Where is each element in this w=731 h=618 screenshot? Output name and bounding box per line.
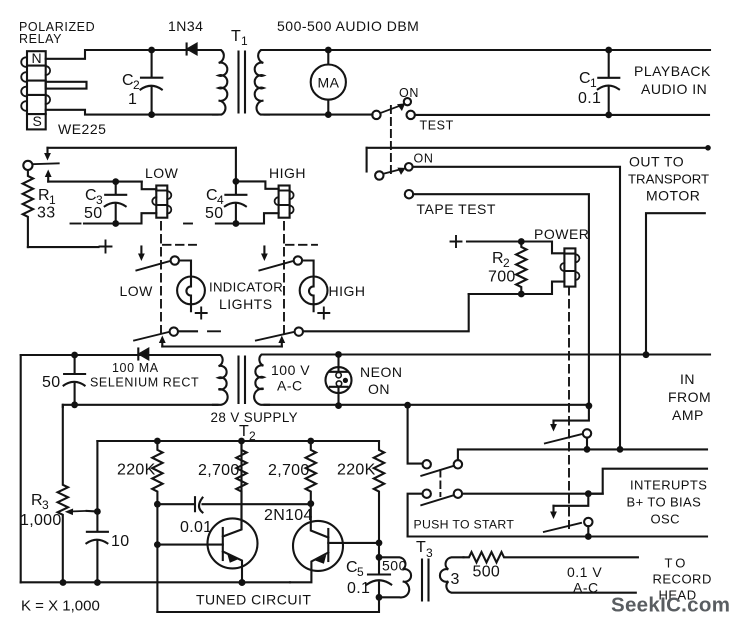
actuate arrow HIGH indicator switch <box>261 247 268 262</box>
svg-text:0.1: 0.1 <box>347 580 370 597</box>
switch S8 push-to-start b <box>408 490 603 537</box>
dashed jog HIGH <box>286 244 317 246</box>
wire release switch to R2 bottom node <box>303 294 469 331</box>
svg-text:28 V SUPPLY: 28 V SUPPLY <box>211 410 299 425</box>
dashed link start switches <box>439 470 441 496</box>
svg-text:A-C: A-C <box>573 580 599 596</box>
svg-text:T: T <box>239 423 249 440</box>
svg-text:FROM: FROM <box>668 389 711 405</box>
svg-text:K = X 1,000: K = X 1,000 <box>21 598 100 615</box>
left frame vertical <box>20 355 22 583</box>
svg-text:10: 10 <box>111 533 129 550</box>
diode selenium rectifier <box>138 349 148 360</box>
relay coil POWER <box>560 248 579 286</box>
transformer T2 primary winding <box>213 355 228 405</box>
svg-text:RECORD: RECORD <box>653 572 712 587</box>
transformer T1 label <box>231 28 248 48</box>
svg-text:LIGHTS: LIGHTS <box>219 296 273 312</box>
wire 28V to start switch <box>408 405 423 463</box>
resistor R2 700 <box>516 242 526 295</box>
svg-text:ON: ON <box>399 86 419 100</box>
svg-text:5: 5 <box>357 565 364 579</box>
wire C4 bottom to HIGH coil <box>216 213 279 223</box>
svg-text:HIGH: HIGH <box>269 165 306 181</box>
label POLARIZED RELAY <box>19 20 95 46</box>
svg-text:WE225: WE225 <box>58 121 106 137</box>
svg-text:1: 1 <box>590 76 597 90</box>
label R1 33 <box>37 187 56 222</box>
plus sign (R1 return) <box>100 241 112 253</box>
label C5 0.1 <box>346 559 370 597</box>
svg-text:2N104: 2N104 <box>264 507 313 524</box>
wire relay top contact to top rail <box>46 50 218 59</box>
dashed link LOW relay to switches <box>160 222 162 334</box>
label C1 value 0.1 <box>578 70 601 107</box>
svg-text:OSC: OSC <box>651 512 680 527</box>
label R3 1,000 <box>20 492 62 529</box>
actuate arrow LOW indicator switch <box>138 247 145 262</box>
resistor R1 33 <box>23 170 33 247</box>
svg-text:T: T <box>231 28 241 45</box>
transformer T2 core <box>239 357 246 404</box>
wire TEST switch to C1 bottom <box>415 114 709 116</box>
svg-text:A-C: A-C <box>277 378 303 394</box>
wire T2 primary bottom to R3 <box>63 405 218 407</box>
relay armature stub <box>46 82 87 89</box>
wire top rail T1 to right edge <box>265 49 711 51</box>
transformer T1 secondary winding <box>255 50 269 115</box>
svg-text:SeekIC.com: SeekIC.com <box>611 594 730 617</box>
svg-text:LOW: LOW <box>120 283 154 299</box>
svg-text:AMP: AMP <box>672 407 704 423</box>
svg-text:INDICATOR: INDICATOR <box>209 280 283 295</box>
svg-text:0.1: 0.1 <box>578 90 601 107</box>
svg-text:3: 3 <box>42 498 49 512</box>
plus sign R2 feed <box>451 236 462 247</box>
meter M1 MA <box>311 47 346 118</box>
switch S10 relay contact (bias osc) <box>544 518 593 540</box>
plus sign lamp 1 <box>196 308 207 319</box>
switch S7 push-to-start a <box>421 449 707 475</box>
svg-text:3: 3 <box>426 546 433 560</box>
svg-text:TAPE TEST: TAPE TEST <box>417 201 496 217</box>
svg-text:N: N <box>32 50 43 66</box>
plus sign lamp 2 <box>318 308 329 319</box>
resistor R8 500 <box>464 552 638 562</box>
wire y181.6 jog to LOW coil top <box>142 182 157 190</box>
transformer T1 core <box>239 52 246 113</box>
emitter rail <box>21 581 290 583</box>
svg-text:HIGH: HIGH <box>329 283 366 299</box>
capacitor C5 0.1 <box>367 543 391 601</box>
label TO RECORD HEAD <box>653 556 712 603</box>
tuned circuit return <box>157 597 379 612</box>
wire switch to lamp 1 <box>179 261 191 277</box>
wire relay select upper (to C4/HIGH) with contact arrow at R1 <box>48 147 236 149</box>
label T2 <box>239 423 256 443</box>
svg-text:0.1 V: 0.1 V <box>567 564 602 580</box>
resistor R7 220K <box>374 441 384 543</box>
wire tape test to vertical <box>413 194 589 406</box>
resistor R6 2,700 <box>306 441 316 504</box>
wire plus to relay POWER top <box>467 242 564 254</box>
minus stub C3 <box>71 223 81 225</box>
svg-text:OUT TO: OUT TO <box>629 154 684 170</box>
wire 220K to coupling cap <box>157 503 194 505</box>
svg-text:MA: MA <box>318 75 340 91</box>
svg-text:ON: ON <box>414 152 434 166</box>
svg-text:S: S <box>33 113 43 129</box>
switch S4 HIGH indicator <box>259 256 302 270</box>
terminal TAPE TEST <box>405 190 413 198</box>
capacitor C3 50 <box>105 178 127 227</box>
wire C4 top to HIGH coil <box>236 181 279 188</box>
label INTERUPTS B+ TO BIAS OSC <box>627 478 708 527</box>
potentiometer R3 1,000 <box>58 405 101 586</box>
capacitor C7 0.01 <box>195 497 311 512</box>
transformer T3 secondary winding <box>440 557 636 592</box>
28V bus y405.5 <box>265 404 589 406</box>
label C3 50 <box>84 187 103 222</box>
transformer T2 secondary winding <box>254 355 269 405</box>
svg-text:1,000: 1,000 <box>20 512 62 529</box>
svg-text:INTERUPTS: INTERUPTS <box>630 478 707 493</box>
wire y148 to right edge <box>367 147 707 149</box>
lamp DS2 HIGH indicator <box>300 277 328 312</box>
return wire with actuate arrows <box>159 336 285 347</box>
lamp NEON ON <box>326 351 352 409</box>
wire 220K down to Q1 base <box>156 504 158 612</box>
svg-text:PUSH TO START: PUSH TO START <box>414 518 515 532</box>
interrupts node jog <box>550 469 707 519</box>
svg-text:SELENIUM RECT: SELENIUM RECT <box>90 376 199 390</box>
lamp DS1 LOW indicator <box>177 277 205 312</box>
svg-text:50: 50 <box>205 205 223 222</box>
wire bottom rail T1 to TEST switch <box>265 114 373 116</box>
dashed jog LOW <box>163 244 196 246</box>
transformer T1 primary winding <box>213 50 227 115</box>
label OUT TO TRANSPORT MOTOR <box>628 154 709 204</box>
label IN FROM AMP <box>668 371 711 423</box>
wire relay bottom contact to bottom rail <box>46 110 218 115</box>
capacitor C1 <box>598 47 620 119</box>
switch S9 relay contact (in from amp) <box>545 406 591 453</box>
contact arrow down at R1 top <box>44 148 51 161</box>
svg-text:T: T <box>416 539 426 556</box>
svg-text:RELAY: RELAY <box>19 32 62 46</box>
dashed link POWER relay to start switches <box>568 287 570 528</box>
wire bias line <box>408 535 707 537</box>
svg-text:500-500 AUDIO DBM: 500-500 AUDIO DBM <box>277 18 419 34</box>
relay coil HIGH <box>275 186 294 218</box>
svg-text:AUDIO IN: AUDIO IN <box>641 81 707 97</box>
svg-text:TEST: TEST <box>420 119 454 133</box>
svg-text:POWER: POWER <box>534 226 589 242</box>
wire switch to lamp 2 <box>302 261 314 277</box>
svg-text:2,700: 2,700 <box>198 462 240 479</box>
wire out to transport motor stub <box>646 213 705 355</box>
wire branch to C4 <box>235 148 237 182</box>
svg-text:TO: TO <box>665 556 689 571</box>
capacitor C2 <box>141 47 163 118</box>
resistor R4 220K <box>152 441 162 504</box>
svg-text:TUNED CIRCUIT: TUNED CIRCUIT <box>196 592 311 608</box>
switch S6 release HIGH <box>256 327 303 340</box>
contact arrow up to wire y181.6 <box>45 170 52 182</box>
switch S2 ON (motor) <box>367 148 413 180</box>
label 100 V A-C <box>271 362 310 394</box>
svg-text:1N34: 1N34 <box>168 18 203 34</box>
wire R1 bottom plus stub <box>28 246 99 248</box>
transformer T3 primary winding (500) <box>379 557 411 597</box>
resistor R5 2,700 <box>236 441 246 529</box>
svg-text:LOW: LOW <box>145 165 179 181</box>
diode 1N34 <box>187 44 197 55</box>
svg-text:500: 500 <box>473 564 501 581</box>
svg-text:3: 3 <box>451 571 460 588</box>
wire Q1 base <box>157 544 222 546</box>
switch S5 release LOW <box>134 327 220 340</box>
svg-text:PLAYBACK: PLAYBACK <box>634 63 711 79</box>
svg-text:MOTOR: MOTOR <box>646 188 700 204</box>
svg-text:1: 1 <box>128 91 137 108</box>
label 0.1 V A-C <box>567 564 602 596</box>
svg-text:100 V: 100 V <box>271 362 310 378</box>
svg-text:2: 2 <box>133 78 140 92</box>
svg-text:IN: IN <box>680 371 695 387</box>
svg-text:500: 500 <box>382 558 407 574</box>
main bus y355 <box>21 353 710 356</box>
transistor Q1 2N104 <box>208 441 258 586</box>
minus stub C4 <box>184 223 192 225</box>
svg-text:220K: 220K <box>337 462 376 479</box>
svg-text:B+ TO BIAS: B+ TO BIAS <box>627 495 702 510</box>
switch S1 TEST with ON contact <box>372 98 415 119</box>
dashed link HIGH relay to switches <box>283 222 285 334</box>
polarized relay K1 (WE225) <box>21 51 50 129</box>
transformer T3 label <box>416 539 433 560</box>
svg-text:33: 33 <box>37 205 55 222</box>
label INDICATOR LIGHTS <box>209 280 283 313</box>
wire C3 bottom to LOW coil <box>84 213 156 223</box>
wire relay POWER bottom <box>469 282 565 294</box>
svg-text:NEON: NEON <box>360 364 402 380</box>
svg-text:2,700: 2,700 <box>268 462 310 479</box>
oscillator top bus <box>97 440 379 442</box>
svg-text:50: 50 <box>84 205 102 222</box>
svg-text:ON: ON <box>368 381 390 397</box>
svg-text:50: 50 <box>42 374 60 391</box>
capacitor C6 50 (filter) <box>64 352 86 409</box>
svg-text:220K: 220K <box>117 462 156 479</box>
capacitor C4 50 <box>225 178 247 227</box>
relay coil LOW <box>152 186 171 218</box>
label NEON ON <box>360 364 402 397</box>
transistor Q2 2N104 <box>290 504 382 583</box>
switch S3 LOW indicator <box>136 256 179 270</box>
svg-text:700: 700 <box>488 269 516 286</box>
transformer T3 core <box>422 560 429 601</box>
wire relay select lower (to C3/LOW) <box>48 181 142 183</box>
wire motor switch output to vertical <box>413 167 620 450</box>
svg-text:TRANSPORT: TRANSPORT <box>628 172 709 187</box>
dashed link TEST switch <box>390 106 392 176</box>
svg-text:1: 1 <box>241 34 248 48</box>
potentiometer R1 terminal and blade <box>23 161 58 170</box>
svg-text:100 MA: 100 MA <box>112 361 159 375</box>
osc supply vertical and cap 10 <box>86 441 108 586</box>
label C2 value 1 <box>122 72 140 108</box>
label PLAYBACK AUDIO IN <box>634 63 711 97</box>
label C4 50 <box>205 187 224 222</box>
label R2 700 <box>488 250 516 286</box>
svg-text:0.01: 0.01 <box>180 519 212 536</box>
label 100 MA SELENIUM RECT <box>90 361 199 390</box>
